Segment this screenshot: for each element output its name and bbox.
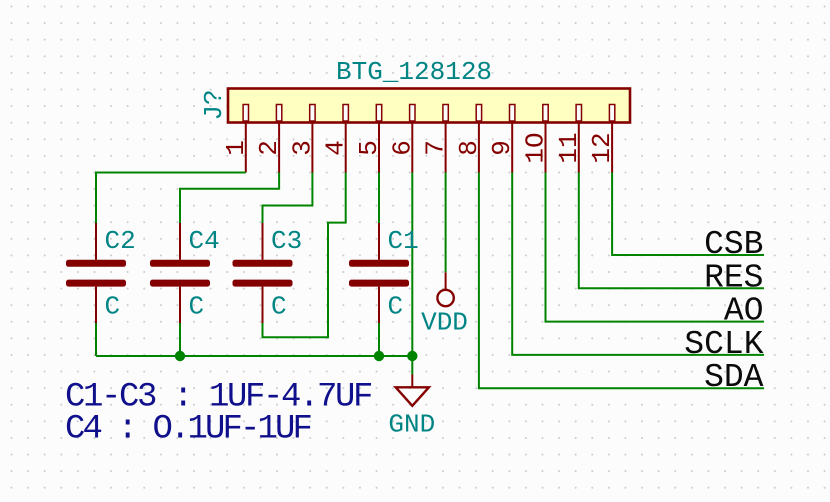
connector pin 6 slot	[410, 105, 415, 122]
wire pin10 to net A0	[546, 173, 765, 322]
svg-text:SDA: SDA	[704, 359, 764, 396]
wire pin4 to C3 bottom	[263, 173, 346, 338]
svg-text:C: C	[189, 292, 205, 322]
pin number 1	[221, 140, 251, 156]
svg-text:1O: 1O	[521, 132, 551, 163]
connector value label BTG_128128	[336, 57, 492, 87]
connector pin 5 lead	[378, 123, 380, 173]
wire pin5 to C1 top	[378, 173, 380, 224]
capacitor C2	[66, 223, 126, 323]
svg-text:4: 4	[321, 140, 351, 156]
connector pin 6 lead	[411, 123, 413, 173]
svg-text:3: 3	[287, 140, 317, 156]
wire pin7 to VDD	[445, 173, 447, 273]
svg-text:SCLK: SCLK	[684, 326, 763, 363]
power symbol VDD circle	[437, 290, 453, 306]
pin number 7	[421, 140, 451, 156]
net label CSB	[704, 226, 763, 263]
connector pin 10 slot	[543, 105, 548, 122]
capacitor C1 value label C	[388, 292, 404, 322]
pin number 12	[587, 132, 617, 163]
note text line 2: C4 : 0.1UF-1UF	[65, 411, 312, 449]
capacitor C4 reference label	[189, 226, 220, 256]
pin number 3	[287, 140, 317, 156]
svg-text:C1: C1	[388, 226, 419, 256]
note text line 1: C1-C3 : 1UF-4.7UF	[65, 378, 372, 416]
svg-text:J?: J?	[199, 89, 229, 120]
connector pin 12 lead	[611, 123, 613, 173]
ground symbol pin	[411, 375, 413, 388]
svg-text:2: 2	[254, 140, 284, 156]
wire C2 bottom to rail	[95, 323, 97, 356]
connector pin 7 slot	[443, 105, 448, 122]
pin number 8	[454, 140, 484, 156]
capacitor C2 value label C	[105, 292, 121, 322]
svg-text:7: 7	[421, 140, 451, 156]
wire ground rail	[96, 355, 412, 357]
connector pin 5 slot	[376, 105, 381, 122]
connector pin 2 slot	[276, 105, 281, 122]
svg-text:8: 8	[454, 140, 484, 156]
pin number 11	[554, 132, 584, 163]
wire pin11 to net RES	[579, 173, 764, 289]
capacitor C4 value label C	[189, 292, 205, 322]
net label RES	[704, 259, 763, 296]
connector pin 11 lead	[578, 123, 580, 173]
wire C1 bottom to rail	[378, 323, 380, 356]
wire pin12 to net CSB	[612, 173, 764, 256]
pin number 4	[321, 140, 351, 156]
connector pin 3 lead	[311, 123, 313, 173]
svg-text:C4: C4	[189, 226, 220, 256]
net label SCLK	[684, 326, 763, 363]
pin number 10	[521, 132, 551, 163]
ground symbol triangle	[396, 387, 429, 406]
svg-text:C: C	[388, 292, 404, 322]
pin number 2	[254, 140, 284, 156]
junction C1/rail	[374, 351, 384, 361]
wire pin3 to C3 top	[263, 173, 313, 224]
wire C4 bottom to rail	[179, 323, 181, 356]
svg-text:12: 12	[587, 132, 617, 163]
wire pin8 to net SDA	[479, 173, 764, 389]
capacitor C3 value label C	[271, 292, 287, 322]
wire pin1 to C2 top	[96, 173, 246, 224]
connector pin 12 slot	[609, 105, 614, 122]
svg-text:C4 : O.1UF-1UF: C4 : O.1UF-1UF	[65, 411, 312, 449]
svg-text:VDD: VDD	[421, 308, 468, 338]
svg-text:5: 5	[354, 140, 384, 156]
connector pin 11 slot	[576, 105, 581, 122]
net label A0	[724, 293, 764, 330]
svg-text:1: 1	[221, 140, 251, 156]
wire pin6 to ground rail	[411, 173, 413, 357]
capacitor C3 reference label	[271, 226, 302, 256]
connector pin 8 slot	[476, 105, 481, 122]
power symbol VDD pin	[445, 272, 447, 289]
junction C4/rail	[175, 351, 185, 361]
svg-text:C2: C2	[105, 226, 136, 256]
svg-text:11: 11	[554, 132, 584, 163]
junction pin6/GND	[407, 351, 417, 361]
connector pin 4 slot	[343, 105, 348, 122]
wire rail to GND symbol	[411, 356, 413, 375]
wire pin2 to C4 top	[180, 173, 279, 224]
svg-text:CSB: CSB	[704, 226, 763, 263]
svg-text:9: 9	[487, 140, 517, 156]
svg-text:AO: AO	[724, 293, 764, 330]
svg-text:6: 6	[387, 140, 417, 156]
svg-text:C: C	[105, 292, 121, 322]
svg-text:GND: GND	[388, 410, 435, 440]
svg-text:RES: RES	[704, 259, 763, 296]
pin number 6	[387, 140, 417, 156]
pin number 5	[354, 140, 384, 156]
connector pin 3 slot	[310, 105, 315, 122]
capacitor C1	[349, 223, 409, 323]
capacitor C2 reference label	[105, 226, 136, 256]
pin number 9	[487, 140, 517, 156]
ground symbol label GND	[388, 410, 435, 440]
net label SDA	[704, 359, 764, 396]
svg-text:C3: C3	[271, 226, 302, 256]
connector pin 7 lead	[445, 123, 447, 173]
connector pin 4 lead	[345, 123, 347, 173]
power symbol VDD label	[421, 308, 468, 338]
wire pin9 to net SCLK	[512, 173, 764, 355]
connector pin 8 lead	[478, 123, 480, 173]
connector reference designator J?	[199, 89, 229, 120]
svg-text:BTG_128128: BTG_128128	[336, 57, 492, 87]
connector pin 10 lead	[545, 123, 547, 173]
connector J? body (BTG_128128)	[228, 89, 630, 123]
connector pin 2 lead	[278, 123, 280, 173]
svg-text:C: C	[271, 292, 287, 322]
capacitor C1 reference label	[388, 226, 419, 256]
connector pin 1 slot	[243, 105, 248, 122]
connector pin 9 slot	[510, 105, 515, 122]
connector pin 9 lead	[511, 123, 513, 173]
capacitor C3	[233, 223, 293, 323]
capacitor C4	[150, 223, 210, 323]
connector pin 1 lead	[245, 123, 247, 173]
